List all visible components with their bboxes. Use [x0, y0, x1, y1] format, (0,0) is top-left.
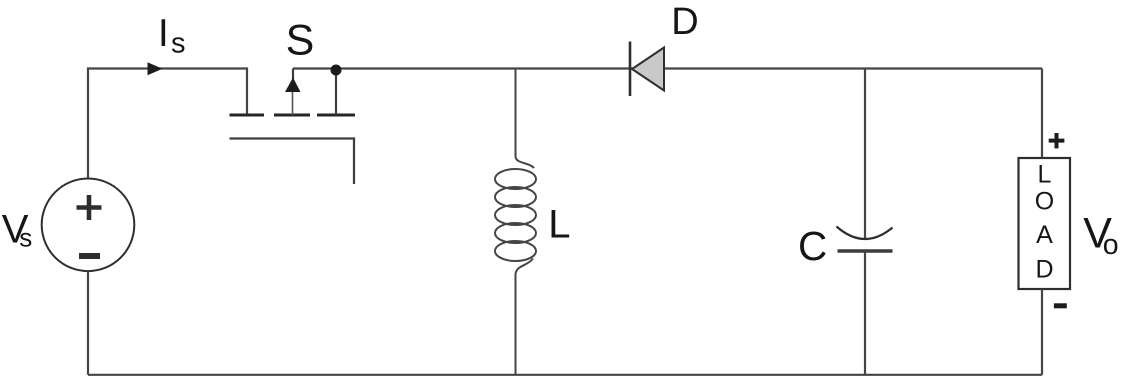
svg-text:C: C: [798, 223, 827, 269]
wire top rail to capacitor plate: [864, 69, 866, 240]
plus polarity mark at load: [1049, 133, 1065, 148]
inductor L: [495, 157, 536, 275]
diode D: [630, 42, 664, 97]
capacitor C: [837, 227, 893, 252]
svg-text:D: D: [671, 1, 698, 43]
transistor S (MOSFET switch): [230, 69, 356, 185]
voltage source Vs: [42, 179, 135, 272]
label Is: [158, 12, 186, 60]
wire capacitor bottom to ground rail: [864, 253, 866, 375]
wire bottom return rail: [88, 374, 1042, 376]
label LOAD: [1035, 161, 1054, 284]
svg-text:S: S: [286, 17, 315, 65]
svg-text:s: s: [19, 222, 32, 252]
wire from Vs top to MOSFET source: [88, 69, 247, 179]
minus polarity mark at load: [1054, 303, 1067, 308]
label Vo: [1083, 210, 1118, 261]
svg-text:L: L: [1038, 161, 1052, 189]
load resistor box: [1019, 158, 1071, 289]
svg-text:L: L: [548, 203, 570, 247]
svg-text:A: A: [1036, 221, 1053, 249]
wire top rail to inductor: [515, 69, 517, 157]
wire top rail down to load: [1041, 69, 1043, 159]
current arrow Is: [148, 62, 163, 75]
svg-text:I: I: [158, 12, 169, 55]
label Vs: [2, 208, 32, 253]
svg-text:D: D: [1035, 256, 1053, 284]
svg-text:s: s: [171, 28, 186, 60]
wire from Vs bottom to ground rail: [87, 271, 89, 375]
wire top rail from MOSFET drain to load corner: [293, 67, 1042, 69]
wire load bottom to ground rail: [1041, 289, 1043, 375]
svg-text:O: O: [1035, 188, 1054, 216]
wire inductor bottom to ground rail: [515, 275, 517, 375]
svg-text:o: o: [1103, 229, 1119, 261]
node junction dot at MOSFET drain: [331, 65, 342, 76]
